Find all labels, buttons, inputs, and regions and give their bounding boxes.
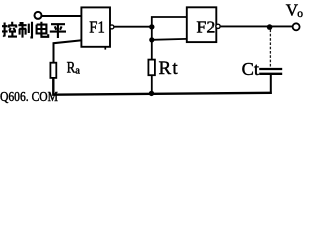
wire terminal to F1 (42, 15, 82, 17)
pin stub below F1 (104, 47, 106, 50)
wire node to F2 lower input (152, 38, 187, 41)
scan speck right of F2 label (212, 26, 214, 28)
wire Rt to bus (151, 75, 153, 94)
gate F2 (187, 7, 217, 42)
resistor Rt (148, 60, 155, 76)
wire node to Ct (faint dashed scan) (269, 30, 271, 68)
svg-text:Ct: Ct (242, 59, 259, 79)
input terminal (35, 12, 42, 19)
wire Ct to bus (270, 75, 272, 94)
resistor Ra (50, 63, 56, 78)
label 控制电平 (drawn strokes) (2, 22, 66, 38)
svg-text:Q606. COM: Q606. COM (0, 89, 58, 104)
F1 output bubble (110, 25, 114, 29)
gate F1 (81, 7, 110, 46)
junction dot on bus (149, 91, 154, 96)
node column wire (to F2 top input and down to Rt) (152, 17, 187, 60)
平 (50, 24, 66, 38)
svg-text:Rt: Rt (159, 58, 179, 79)
capacitor Ct plates (259, 68, 282, 70)
Vo terminal (293, 23, 300, 30)
控 (2, 23, 8, 37)
svg-text:o: o (297, 8, 303, 20)
svg-text:a: a (75, 66, 80, 77)
电 (37, 22, 47, 36)
F2 output bubble (216, 24, 220, 28)
junction dot (F2 lower input node) (149, 37, 154, 42)
wire F1 output to node (114, 26, 152, 28)
junction dot (F1 output node) (149, 24, 154, 29)
svg-text:F1: F1 (89, 17, 105, 36)
junction dot (output node) (267, 24, 273, 30)
wire F2 output to Vo terminal (221, 25, 293, 27)
制 (18, 22, 26, 38)
wire from F1 left-bottom to Ra (54, 40, 83, 63)
bottom bus wire (53, 78, 271, 95)
